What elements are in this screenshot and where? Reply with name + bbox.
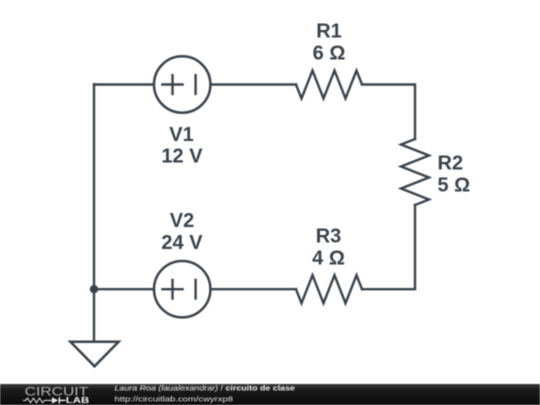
resistor R2: [401, 139, 429, 205]
voltage source V1: [154, 56, 210, 112]
svg-text:LAB: LAB: [66, 395, 90, 405]
svg-text:V1: V1: [169, 124, 193, 146]
svg-text:R2: R2: [438, 153, 464, 175]
wire R3 left to V2: [212, 288, 297, 290]
wire left rail vertical: [93, 85, 95, 290]
node junction dot: [90, 285, 98, 293]
wire V1 right to R1: [212, 83, 297, 85]
voltage source V2: [154, 261, 210, 317]
svg-text:4 Ω: 4 Ω: [312, 248, 345, 270]
logo diode: [52, 397, 58, 403]
logo schematic line: resistor zigzag: [23, 398, 52, 403]
svg-text:Laura Roa (laualexandrar) / ci: Laura Roa (laualexandrar) / circuito de …: [115, 384, 296, 393]
wire top-left horizontal from left rail to V1: [94, 83, 153, 85]
svg-text:R3: R3: [316, 226, 342, 248]
svg-text:5 Ω: 5 Ω: [438, 175, 471, 197]
wire ground stem: [93, 289, 95, 342]
svg-text:V2: V2: [170, 210, 194, 232]
resistor R3: [296, 275, 362, 303]
svg-text:R1: R1: [316, 21, 342, 43]
svg-text:http://circuitlab.com/cwyrxp8: http://circuitlab.com/cwyrxp8: [115, 394, 234, 403]
svg-text:24 V: 24 V: [161, 232, 203, 254]
ground: [70, 342, 118, 367]
resistor R1: [296, 71, 362, 99]
svg-text:6 Ω: 6 Ω: [313, 43, 346, 65]
wire R1 to top-right corner down to R2: [362, 85, 415, 140]
svg-text:12 V: 12 V: [161, 146, 203, 168]
wire V2 left to node: [94, 288, 153, 290]
wire R2 bottom to bottom-right corner to R3: [362, 205, 415, 289]
